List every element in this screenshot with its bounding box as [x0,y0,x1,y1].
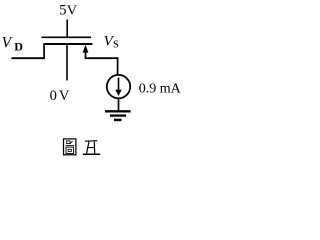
wire drain lead (left, down from channel) [43,44,45,58]
caption glyph 五 (five) [83,141,100,155]
svg-text:S: S [113,40,119,51]
wire source horizontal to current source [85,57,118,59]
svg-text:5: 5 [59,3,66,19]
transistor M1 channel bar [43,43,92,45]
transistor M1 gate bar [42,36,92,38]
caption glyph 圖 (Figure) [64,139,76,155]
wire gate lead from 5 V to gate bar [66,20,68,38]
wire bulk lead down to 0 V [66,44,68,81]
svg-text:0.9 mA: 0.9 mA [139,81,182,96]
current source I1 arrow [118,78,120,91]
ground [105,111,131,120]
wire down into current source [117,57,119,74]
svg-text:V: V [67,4,77,19]
current source I1 circle [107,75,130,98]
wire drain horizontal to VD [12,57,45,59]
svg-text:0: 0 [50,88,57,104]
wire source lead down from arrow [85,52,87,58]
wire from current source to ground [118,98,120,111]
svg-text:V: V [2,34,13,51]
transistor M1 source arrow [83,45,89,53]
svg-text:D: D [14,39,23,53]
svg-text:V: V [59,88,70,104]
